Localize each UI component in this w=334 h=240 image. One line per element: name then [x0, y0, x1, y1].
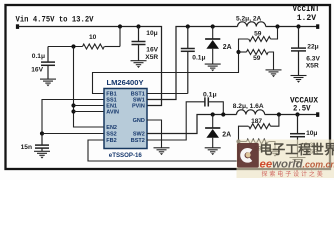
capacitor C5 22u 6.3V X5R	[291, 27, 306, 76]
wire FB1 sense	[93, 52, 239, 94]
svg-text:SW2: SW2	[133, 132, 145, 138]
capacitor C4 0.1u bootstrap 1	[181, 27, 195, 94]
wire FB2 sense	[88, 140, 239, 161]
ground	[291, 76, 307, 83]
resistor R4 59 bottom ch2	[247, 139, 269, 144]
wire SW1 to switch node	[147, 27, 238, 100]
ground	[34, 151, 50, 158]
svg-text:Vin 4.75V to 13.2V: Vin 4.75V to 13.2V	[16, 15, 95, 25]
capacitor C7 10u 6.3V X5R	[290, 115, 305, 158]
svg-text:2A: 2A	[222, 132, 231, 139]
wire GND pin to ground	[147, 120, 162, 148]
capacitor C3 15n	[35, 134, 49, 152]
svg-text:X5R: X5R	[306, 62, 319, 69]
svg-text:2.5V: 2.5V	[293, 104, 311, 114]
wire EN/AVIN rail	[74, 47, 105, 128]
node 22u cap tap	[296, 24, 300, 28]
wire FB2 node to R4	[239, 141, 247, 143]
op-amp U1 LM26400Y body	[104, 89, 147, 149]
node diode D2 tap	[211, 112, 215, 116]
diode D2 2A schottky	[205, 115, 220, 148]
svg-text:16V: 16V	[31, 66, 43, 73]
border frame	[6, 5, 331, 169]
svg-text:X5R: X5R	[145, 54, 158, 61]
resistor R1 59 top	[249, 37, 271, 42]
terminal Vin	[16, 24, 19, 29]
svg-text:8.2μ, 1.6A: 8.2μ, 1.6A	[233, 103, 264, 110]
wire FB node to R2	[239, 51, 247, 53]
wire VCCAUX output	[265, 114, 317, 116]
ground	[154, 148, 170, 155]
wire divider top ch2	[271, 115, 279, 127]
wire to AVIN	[74, 111, 105, 113]
svg-text:FB2: FB2	[106, 138, 116, 144]
node tap to AVIN filter	[118, 24, 122, 28]
wire SS2	[42, 133, 104, 135]
wire cap to SW2 node	[208, 102, 223, 115]
svg-text:SS2: SS2	[106, 132, 116, 138]
resistor R3 187	[249, 124, 271, 129]
wire R4 to ground	[269, 142, 276, 150]
node BST1 cap tap	[186, 24, 190, 28]
svg-text:0.1μ: 0.1μ	[192, 55, 205, 62]
svg-text:0.1μ: 0.1μ	[32, 53, 45, 60]
capacitor C1 0.1u 16V	[41, 47, 55, 80]
ground	[266, 70, 282, 77]
svg-text:AVIN: AVIN	[106, 110, 119, 116]
svg-text:5.2μ, 2A: 5.2μ, 2A	[236, 15, 262, 22]
svg-text:BST2: BST2	[131, 138, 145, 144]
wire to EN1	[74, 105, 105, 107]
svg-text:电子工程世界: 电子工程世界	[260, 142, 334, 157]
svg-text:EN2: EN2	[106, 125, 117, 131]
svg-text:PVIN: PVIN	[132, 104, 145, 110]
svg-text:0.1μ: 0.1μ	[203, 91, 217, 98]
ground	[131, 61, 147, 68]
ground	[205, 148, 221, 155]
node EN/AVIN rail tap	[71, 44, 75, 48]
capacitor C2 10u 16V X5R	[132, 27, 146, 61]
wire R2 to ground	[269, 52, 274, 70]
inductor L1 5.2u 2A	[238, 22, 266, 27]
terminal VccINT	[316, 24, 319, 29]
node VCCAUX junction to divider	[277, 112, 281, 116]
svg-text:1.2V: 1.2V	[297, 13, 317, 23]
wire to FB2 node	[239, 126, 249, 141]
wire AVIN filter rail y=46	[48, 46, 83, 48]
capacitor C6 0.1u bootstrap 2	[205, 97, 208, 106]
ground	[267, 149, 283, 156]
svg-text:LM26400Y: LM26400Y	[107, 80, 144, 87]
svg-text:10μ: 10μ	[146, 30, 157, 37]
watermark eeworld	[237, 140, 334, 179]
wire down from Vin rail	[119, 27, 121, 47]
wire BST2	[147, 102, 205, 140]
node FB1 divider midpoint	[236, 50, 240, 54]
ground	[40, 79, 56, 86]
node BST2 tap	[221, 112, 225, 116]
node SS junction	[40, 131, 44, 135]
node 10uF input cap tap	[136, 24, 140, 28]
svg-text:GND: GND	[133, 118, 145, 124]
node AVIN	[71, 109, 75, 113]
svg-text:15n: 15n	[21, 144, 32, 151]
svg-text:2A: 2A	[223, 44, 232, 51]
node EN1	[71, 103, 75, 107]
resistor 10	[83, 44, 105, 49]
svg-text:187: 187	[251, 118, 262, 125]
node FB2 divider midpoint	[236, 139, 240, 143]
svg-text:eeworld.com.cn: eeworld.com.cn	[260, 158, 334, 170]
svg-text:59: 59	[254, 31, 262, 38]
inductor L2 8.2u 1.6A	[237, 110, 265, 115]
wire SS1 to shared soft-start	[42, 100, 104, 134]
node VccINT junction to divider	[275, 24, 279, 28]
svg-text:探索电子设计之美: 探索电子设计之美	[262, 170, 325, 178]
svg-text:10: 10	[89, 34, 97, 41]
svg-text:eTSSOP-16: eTSSOP-16	[109, 152, 142, 159]
svg-text:10μ: 10μ	[306, 130, 317, 137]
terminal VCCAUX	[316, 112, 319, 117]
wire VccINT output	[266, 26, 317, 28]
resistor R2 59 bottom	[247, 50, 269, 55]
wire divider top	[271, 27, 278, 40]
wire Vin rail to PVIN	[18, 27, 162, 106]
svg-text:16V: 16V	[146, 46, 158, 53]
ground	[205, 64, 221, 71]
diode D1 2A schottky	[205, 27, 220, 65]
wire to FB node	[239, 39, 249, 52]
wire SW2 to switch node 2	[147, 115, 237, 134]
svg-text:22μ: 22μ	[307, 44, 318, 51]
svg-text:59: 59	[253, 55, 261, 62]
node diode D1 tap	[211, 24, 215, 28]
wire BST1	[147, 93, 188, 95]
ground	[290, 158, 306, 165]
node 10u cap tap	[295, 112, 299, 116]
